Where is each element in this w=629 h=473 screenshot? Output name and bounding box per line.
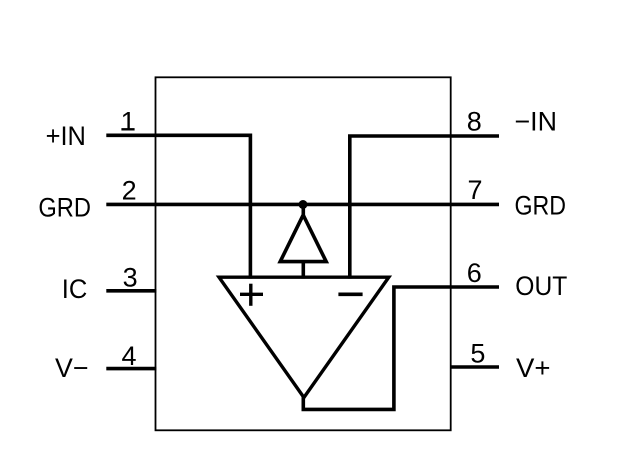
pin 3 stub (IC internal connection) [106,289,156,293]
IC package outline U1 [156,77,451,430]
svg-text:IC: IC [62,274,88,304]
wire op-amp output to pin 6 (OUT) [303,287,499,409]
op-amp + input marking [240,293,263,296]
svg-text:GRD: GRD [515,190,567,220]
pin 5 stub (V+) [451,365,499,369]
svg-text:V−: V− [55,353,89,383]
svg-text:5: 5 [470,338,485,368]
svg-text:GRD: GRD [38,192,91,222]
reference diode triangle D1 [280,215,326,262]
svg-text:7: 7 [467,175,482,205]
svg-text:+IN: +IN [46,121,86,151]
svg-text:8: 8 [467,107,482,137]
svg-text:V+: V+ [516,353,551,383]
svg-text:6: 6 [467,258,482,288]
svg-text:4: 4 [121,341,136,371]
svg-text:3: 3 [123,263,138,293]
wire GRD net pin 2 to pin 7 [106,203,499,207]
svg-text:−IN: −IN [515,107,558,137]
wire diode base to op-amp top edge [301,262,305,279]
wire pin 8 (−IN) to op-amp inverting input [350,136,499,279]
wire junction to diode apex [301,205,305,218]
pin 4 stub (V−) [106,367,156,371]
junction node on GRD net [299,200,308,209]
svg-text:1: 1 [121,107,136,137]
svg-text:OUT: OUT [515,271,567,301]
wire pin 1 (+IN) to op-amp non-inverting input [106,135,250,278]
op-amp − input marking [338,292,362,296]
op-amp triangle A1 [219,277,389,397]
svg-text:2: 2 [122,176,137,206]
